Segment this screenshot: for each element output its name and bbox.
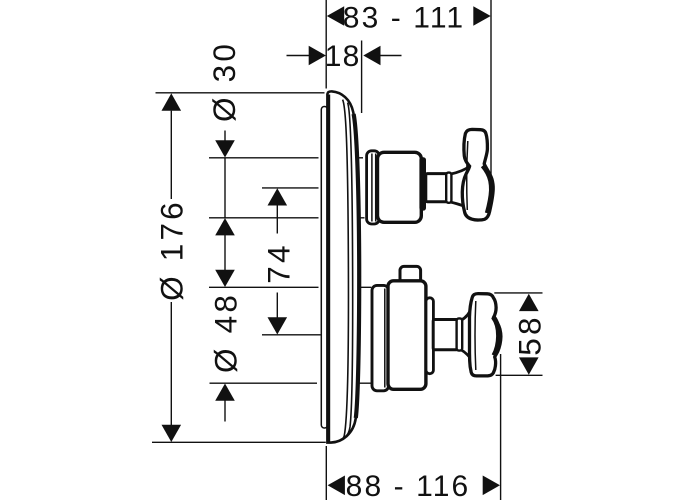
arrowhead left 83-111 bbox=[327, 6, 344, 26]
svg-text:58: 58 bbox=[512, 314, 548, 355]
extension line top stem axis (74 upper) bbox=[262, 187, 319, 189]
lower step ring bbox=[426, 298, 433, 374]
extension line bottom of lower sleeve (Ø48 lower) bbox=[210, 382, 372, 384]
lower valve sleeve flange bbox=[372, 285, 389, 390]
top stem end ring bbox=[446, 173, 451, 203]
extension line top of cartridge (Ø30 upper) bbox=[209, 157, 363, 159]
arrowhead Ø176 down bbox=[162, 425, 182, 442]
arrowhead 18 left (pointing right) bbox=[309, 46, 326, 66]
dimension shaft Ø176 bbox=[170, 111, 172, 425]
arrowhead Ø176 up bbox=[162, 93, 182, 110]
svg-text:83 - 111: 83 - 111 bbox=[343, 2, 465, 35]
extension line top of 58 (lower handle top) bbox=[494, 292, 542, 294]
lower handle inner contour bbox=[474, 301, 477, 370]
top handle hub dark band bbox=[483, 166, 492, 214]
svg-text:Ø 176: Ø 176 bbox=[153, 199, 189, 301]
arrowhead 18 right (pointing left) bbox=[363, 46, 380, 66]
escutcheon plate left edge (thick) bbox=[327, 95, 331, 442]
top valve body bbox=[378, 152, 422, 222]
arrowhead chain down (to line 287) bbox=[215, 270, 235, 287]
top cross handle (side view) bbox=[462, 129, 493, 220]
lower cross handle (side view) bbox=[470, 294, 501, 376]
arrowhead Ø48 up (to line 383) bbox=[215, 384, 235, 401]
svg-text:88 - 116: 88 - 116 bbox=[346, 470, 471, 500]
dimension shaft Ø30 chain bbox=[224, 131, 226, 422]
extension line left of 88-116 (below plate) bbox=[325, 446, 327, 500]
svg-text:Ø 30: Ø 30 bbox=[206, 41, 242, 122]
arrowhead 74 down bbox=[268, 317, 288, 334]
escutcheon plate (side view) bbox=[327, 91, 359, 442]
extension line top of lower escutcheon sleeve (Ø48 upper) bbox=[209, 286, 371, 288]
dimension shaft 74 bbox=[276, 205, 278, 318]
top flange contour lines bbox=[372, 154, 376, 222]
svg-text:18: 18 bbox=[325, 40, 361, 73]
extension line right of 83-111 (top handle end) bbox=[490, 0, 492, 176]
arrowhead right 88-116 bbox=[483, 476, 500, 496]
lower handle hub dark band bbox=[493, 317, 498, 356]
top stem bbox=[426, 174, 448, 202]
top handle hub cone bbox=[450, 166, 472, 210]
arrowhead chain up (to line 218) bbox=[215, 218, 235, 235]
dimension shaft 18 right bbox=[381, 55, 402, 57]
extension line bottom of cartridge (Ø30 lower) bbox=[209, 217, 365, 219]
arrowhead Ø30 down (to line 158) bbox=[215, 140, 235, 157]
arrowhead right 83-111 bbox=[473, 6, 490, 26]
lower stem end ring bbox=[457, 318, 463, 350]
extension line lower stem axis (74 lower) bbox=[262, 334, 321, 336]
extension line bottom of 58 (lower handle bottom) bbox=[496, 374, 543, 376]
svg-text:74: 74 bbox=[260, 242, 296, 283]
arrowhead left 88-116 bbox=[328, 476, 345, 496]
escutcheon back rim outline bbox=[321, 107, 327, 429]
lower handle hub cone bbox=[461, 308, 474, 363]
arrowhead 74 up bbox=[268, 188, 288, 205]
lower stem bbox=[433, 320, 458, 350]
top step ring (dark) bbox=[419, 157, 426, 210]
extension line bottom of escutcheon bbox=[152, 441, 326, 443]
lower flange contour lines bbox=[384, 289, 386, 388]
arrowhead 58 down bbox=[519, 357, 539, 374]
svg-text:Ø 48: Ø 48 bbox=[207, 292, 243, 373]
extension line top of escutcheon bbox=[156, 92, 325, 94]
extension line right of 18 (plate front face) bbox=[361, 41, 363, 114]
top handle inner contour bbox=[467, 141, 468, 210]
arrowhead 58 up bbox=[519, 294, 539, 311]
lower valve stop tab bbox=[400, 266, 421, 283]
lower valve body bbox=[388, 281, 426, 390]
extension line left of 83-111 / 18 (wall face) bbox=[325, 0, 327, 89]
extension line right of 88-116 (lower handle end) bbox=[500, 354, 502, 500]
dimension shaft 18 left bbox=[287, 55, 310, 57]
escutcheon dome contour line 1 bbox=[339, 100, 348, 442]
escutcheon dome contour line 2 bbox=[345, 103, 352, 438]
top valve sleeve flange bbox=[367, 151, 380, 224]
escutcheon plate front edge (thick) bbox=[354, 114, 360, 418]
